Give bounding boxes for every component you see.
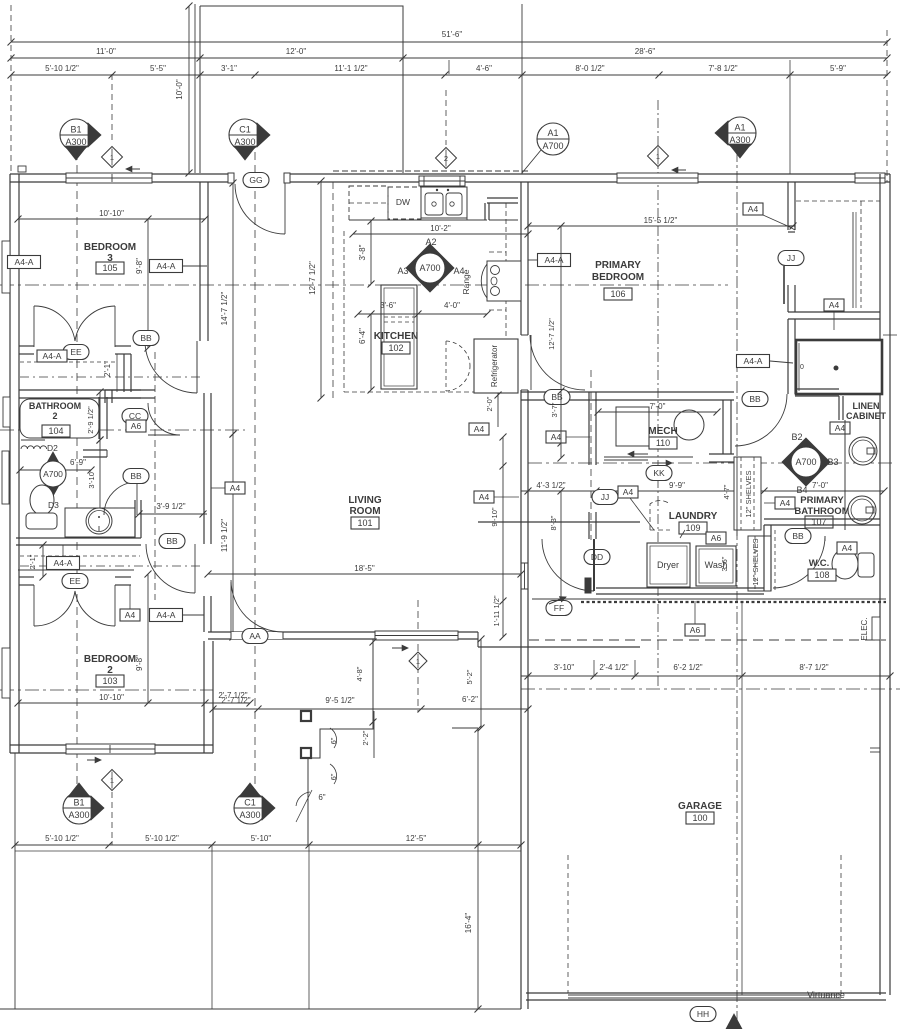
oval EE bedroom3 closet [63, 345, 89, 360]
dashed line x418 below living room [417, 600, 419, 712]
svg-text:3'-1": 3'-1" [221, 64, 237, 73]
hall wall piece above DD [588, 512, 590, 539]
svg-text:2'-7 1/2": 2'-7 1/2" [221, 696, 250, 705]
svg-text:A4-A: A4-A [157, 261, 176, 271]
dim row y491: 4'-3 1/2 / 9'-9 / 7'-0 [521, 490, 884, 492]
svg-text:A4-A: A4-A [15, 257, 34, 267]
svg-text:LIVING: LIVING [348, 495, 382, 506]
svg-text:0: 0 [800, 364, 804, 371]
window bedroom 3 top [66, 173, 152, 183]
elevation marker B2/A700/B3/B4 [782, 438, 830, 486]
counter right of sink / wall jog [487, 197, 518, 199]
tag A4 near wall x521 [474, 491, 494, 503]
diamond 1 top-left [102, 147, 123, 168]
svg-text:1'-11 1/2": 1'-11 1/2" [492, 595, 501, 626]
dryer [647, 543, 690, 587]
elevation marker A700 bath2 [43, 452, 63, 470]
bedroom3 right wall [199, 182, 201, 341]
section line C vertical dashed [254, 152, 256, 790]
svg-text:12" SHELVES: 12" SHELVES [751, 538, 760, 585]
svg-text:BB: BB [792, 531, 804, 541]
tag A4-A bedroom2 [150, 609, 183, 622]
svg-text:106: 106 [610, 289, 625, 299]
oval EE bedroom2 [62, 574, 88, 589]
furnace rect [616, 407, 649, 446]
svg-text:B3: B3 [827, 457, 838, 467]
svg-text:2'-4 1/2": 2'-4 1/2" [599, 663, 628, 672]
svg-text:DD: DD [591, 552, 603, 562]
svg-text:PRIMARY: PRIMARY [800, 495, 844, 506]
svg-text:A700: A700 [419, 263, 440, 273]
section marker B1/A300 top [60, 119, 92, 151]
hall right wall / bedroom2 right wall [203, 458, 205, 544]
svg-text:110: 110 [656, 438, 670, 448]
tag A4 closet2 [824, 299, 844, 311]
svg-text:7'-0": 7'-0" [650, 402, 666, 411]
bath2 door arc [104, 482, 137, 515]
diamond 1 below living room [409, 652, 427, 670]
svg-text:2: 2 [52, 411, 57, 421]
garage top wall line [532, 598, 886, 600]
dim 7'-0 mech [598, 411, 717, 413]
svg-text:ROOM: ROOM [349, 506, 380, 517]
svg-text:A4: A4 [474, 424, 485, 434]
svg-text:B4: B4 [796, 485, 807, 495]
svg-text:B2: B2 [791, 432, 802, 442]
primary bath top wall / linen [795, 388, 839, 390]
section line A-A vertical dash-dot through garage [736, 150, 738, 1025]
svg-text:A700: A700 [542, 141, 563, 151]
12in shelves lower [748, 536, 771, 591]
vanity right wall [134, 500, 136, 538]
leader 109 [680, 530, 685, 538]
svg-text:2'-1": 2'-1" [28, 554, 37, 569]
right exterior wall [879, 174, 881, 995]
svg-text:BB: BB [130, 471, 142, 481]
oval BB right2 [742, 392, 768, 407]
tag A4 top closet [743, 203, 763, 215]
svg-text:BATHROOM: BATHROOM [794, 506, 849, 517]
svg-text:B1: B1 [70, 125, 81, 135]
tag A4 below fridge [469, 423, 489, 435]
svg-text:12'-7 1/2": 12'-7 1/2" [308, 261, 317, 295]
bathroom2 top wall [19, 389, 141, 391]
svg-text:D3: D3 [48, 500, 59, 510]
svg-text:C1: C1 [239, 125, 251, 135]
svg-text:12'-7 1/2": 12'-7 1/2" [547, 318, 556, 350]
dim 12'-7 1/2 right rotated [560, 226, 562, 443]
tag A4 left of mech [546, 431, 566, 443]
horizontal dash-dot y285 [0, 284, 728, 286]
svg-text:GARAGE: GARAGE [678, 801, 722, 812]
svg-text:A3: A3 [397, 266, 408, 276]
oval GG [243, 173, 269, 188]
svg-text:A4-A: A4-A [54, 558, 73, 568]
CC closet walls [104, 390, 106, 403]
svg-text:7'-8 1/2": 7'-8 1/2" [708, 64, 737, 73]
svg-text:7'-0": 7'-0" [812, 481, 828, 490]
svg-text:6": 6" [318, 793, 325, 802]
svg-text:MECH: MECH [648, 426, 677, 437]
arrow below primary window [672, 169, 686, 171]
garage door jamb dashes [567, 855, 569, 993]
horizontal dash-dot y690 left [0, 689, 213, 691]
svg-text:3'-9 1/2": 3'-9 1/2" [156, 502, 185, 511]
kitchen island [381, 285, 417, 389]
svg-text:51'-6": 51'-6" [442, 30, 463, 39]
oval HH [690, 1007, 716, 1022]
svg-text:LINEN: LINEN [853, 401, 880, 411]
porch slab edges [14, 753, 16, 1009]
svg-text:109: 109 [685, 523, 700, 533]
dimension row 2: 11'-0 / 12'-0 / 28'-6 [11, 57, 887, 59]
svg-text:A6: A6 [711, 533, 722, 543]
oval BB near DD [0, 0, 1, 1]
svg-text:9'-9": 9'-9" [669, 481, 685, 490]
svg-text:108: 108 [814, 570, 829, 580]
svg-text:12'-0": 12'-0" [286, 47, 307, 56]
garage extension lines [593, 660, 595, 676]
window kitchen top [419, 176, 465, 186]
dim 11'-9 1/2 rotated [232, 434, 234, 637]
laundry dashed cabinet [650, 501, 670, 530]
svg-text:11'-0": 11'-0" [96, 47, 116, 56]
svg-text:BATHROOM: BATHROOM [29, 401, 81, 411]
oval BB wc [785, 529, 811, 544]
water heater circle [674, 410, 704, 440]
bedroom2 door arc [194, 544, 196, 593]
svg-text:10'-2": 10'-2" [430, 224, 451, 233]
svg-text:A4-A: A4-A [43, 351, 62, 361]
svg-text:A4: A4 [835, 423, 846, 433]
svg-text:A4: A4 [748, 204, 759, 214]
callout A1/A700 with leader [537, 123, 569, 155]
svg-text:DW: DW [396, 197, 410, 207]
oval BB mid [123, 469, 149, 484]
wc top wall [764, 518, 880, 520]
HH arrow [726, 1014, 742, 1029]
svg-text:4'-6": 4'-6" [476, 64, 492, 73]
svg-text:JJ: JJ [787, 253, 796, 263]
bedroom3 dimensions 10'-10 and 9'-8 [18, 218, 205, 220]
refrigerator [474, 339, 518, 393]
garage top wall dotted [581, 601, 886, 603]
oval BB lower [159, 534, 185, 549]
dimension row 3 [11, 74, 887, 76]
svg-text:3'-6": 3'-6" [720, 556, 729, 571]
svg-text:6'-2": 6'-2" [462, 695, 478, 704]
svg-text:CABINET: CABINET [846, 411, 887, 421]
svg-text:102: 102 [388, 343, 403, 353]
left exterior wall [9, 174, 11, 753]
closet-bath dashed shelf lines [20, 361, 117, 363]
svg-text:KITCHEN: KITCHEN [374, 331, 418, 342]
svg-text:3'-7": 3'-7" [550, 402, 559, 417]
primary closet dashed shelves [796, 200, 880, 202]
toilet wc [832, 549, 858, 579]
horizontal dash-dot y689 garage [521, 688, 900, 690]
top exterior wall [10, 173, 890, 175]
tag A4-A mid right [737, 355, 770, 368]
svg-text:A700: A700 [795, 457, 816, 467]
oval BB right wing top [544, 390, 570, 405]
svg-text:11'-9 1/2": 11'-9 1/2" [220, 519, 229, 552]
closet front wall stubs [19, 345, 34, 347]
right wall step [870, 747, 880, 749]
svg-text:5'-10 1/2": 5'-10 1/2" [145, 834, 179, 843]
diamond 1 bottom [102, 770, 123, 791]
main dividing wall x521-528 [520, 182, 522, 335]
oval FF [546, 601, 572, 616]
svg-text:A4: A4 [551, 432, 562, 442]
svg-text:Dryer: Dryer [657, 560, 679, 570]
window top right [855, 173, 885, 183]
svg-text:HH: HH [697, 1009, 709, 1019]
bedroom wing bottom wall [10, 744, 213, 746]
diamond 2 top-center [436, 148, 457, 169]
tub wall right [98, 397, 100, 439]
tag A4-A closet bed3 [37, 350, 67, 362]
dashed line x333 kitchen [332, 182, 334, 398]
mech top wall [521, 391, 734, 393]
svg-text:5'-10 1/2": 5'-10 1/2" [45, 834, 79, 843]
svg-text:3'-6": 3'-6" [380, 301, 396, 310]
svg-text:3'-10": 3'-10" [554, 663, 575, 672]
tag A4-A left wall [8, 256, 41, 269]
door GG into living room [284, 183, 286, 234]
tag A4-A hall [47, 557, 80, 570]
svg-text:BB: BB [749, 394, 761, 404]
tag A4 bedroom2 [120, 609, 140, 621]
kitchen upper cabinets dashed [349, 186, 388, 220]
extension line x112 [111, 74, 113, 143]
section marker C1/A300 top [229, 119, 261, 151]
svg-text:EE: EE [69, 576, 81, 586]
svg-text:2'-2": 2'-2" [361, 730, 370, 745]
bedroom3 door [145, 341, 197, 393]
svg-text:A4: A4 [623, 487, 634, 497]
svg-text:10'-10": 10'-10" [99, 209, 124, 218]
door DD [584, 550, 610, 565]
svg-text:6'-2 1/2": 6'-2 1/2" [673, 663, 702, 672]
svg-text:10'-10": 10'-10" [99, 693, 124, 702]
svg-text:2: 2 [107, 665, 113, 676]
dim 3'-8 rotated [370, 221, 372, 284]
tag A4-A bedroom3 [150, 260, 183, 273]
shower [796, 340, 882, 394]
extension line x449 [448, 60, 450, 74]
tag A4-A primary left [538, 254, 571, 267]
svg-text:4'-0": 4'-0" [444, 301, 460, 310]
svg-text:100: 100 [692, 813, 707, 823]
dim 16'-4 rotated [452, 727, 478, 729]
svg-text:5'-5": 5'-5" [150, 64, 166, 73]
svg-text:ELEC.: ELEC. [860, 617, 869, 640]
CC door arc [148, 403, 180, 435]
svg-text:GG: GG [249, 175, 262, 185]
svg-text:101: 101 [357, 518, 372, 528]
porch outline top [200, 6, 403, 173]
section marker A1/A300 top-right [724, 117, 756, 149]
garage door lines [568, 994, 841, 996]
dashed line x155 left hall [154, 352, 156, 600]
garage bottom wall [526, 992, 886, 994]
oval KK [646, 466, 672, 481]
svg-text:A300: A300 [234, 137, 255, 147]
extension line left [10, 5, 12, 173]
svg-text:A4: A4 [230, 483, 241, 493]
svg-text:A300: A300 [68, 810, 89, 820]
tag A4 shelves [775, 497, 795, 509]
svg-text:BEDROOM: BEDROOM [84, 654, 136, 665]
bath vanity sinks [844, 420, 846, 530]
dim 10'-2 [353, 233, 528, 235]
svg-text:AA: AA [249, 631, 261, 641]
wall stub below CC [83, 449, 107, 451]
svg-text:FF: FF [554, 603, 564, 613]
svg-text:12" SHELVES: 12" SHELVES [744, 470, 753, 517]
elevation marker A700 kitchen [406, 244, 454, 292]
svg-text:BB: BB [140, 333, 152, 343]
svg-text:3'-8": 3'-8" [358, 244, 367, 260]
primary bath door arc [735, 394, 787, 446]
svg-text:15'-5 1/2": 15'-5 1/2" [644, 216, 678, 225]
svg-text:A300: A300 [729, 135, 750, 145]
kitchen dashed boundary [343, 231, 345, 392]
closet bottom end cap [788, 225, 795, 227]
svg-text:4'-7": 4'-7" [722, 484, 731, 499]
oval JJ hall [592, 490, 618, 505]
horizontal dash-dot y463 right wing [528, 462, 893, 464]
svg-text:5'-2": 5'-2" [465, 669, 474, 684]
closet bottom wall [788, 311, 880, 313]
svg-text:6'-4": 6'-4" [358, 328, 367, 344]
svg-text:A700: A700 [43, 469, 63, 479]
left wall window projections [2, 241, 10, 293]
range appliance [487, 261, 521, 301]
svg-text:W.C.: W.C. [809, 558, 830, 569]
dim 9'-10 and 1'-11 1/2 rotated [502, 437, 504, 637]
hall dashed lines [20, 555, 140, 557]
oval AA [242, 629, 268, 644]
living room door bottom [231, 632, 283, 639]
mech room walls [588, 392, 590, 465]
svg-text:A4: A4 [125, 610, 136, 620]
svg-text:5'-10 1/2": 5'-10 1/2" [45, 64, 79, 73]
svg-text:8'-0 1/2": 8'-0 1/2" [575, 64, 604, 73]
refrigerator door dashed arcs [446, 341, 470, 366]
section marker B1/A300 bottom [63, 792, 95, 824]
svg-text:10'-0": 10'-0" [175, 79, 184, 100]
mech bifold marks [604, 456, 693, 458]
arrow below bedroom2 window [87, 759, 101, 761]
closet wall stub x788-795 upper [787, 182, 789, 230]
wall jog x478-522 [477, 632, 479, 647]
svg-text:A6: A6 [690, 625, 701, 635]
dim 3'-6 / 4'-0 [358, 313, 487, 315]
svg-text:A4: A4 [829, 300, 840, 310]
dashed roofline y171 [333, 170, 528, 172]
bedroom2 closet doors [33, 585, 35, 626]
dimension row 51'-6" [11, 41, 887, 43]
dashed counter right x506 [505, 203, 507, 339]
svg-text:A1: A1 [547, 128, 558, 138]
svg-text:16'-4": 16'-4" [464, 913, 473, 934]
bedroom2 dims [18, 702, 205, 704]
svg-text:D2: D2 [47, 443, 58, 453]
dishwasher DW [388, 187, 421, 219]
svg-text:9'-10": 9'-10" [490, 507, 499, 526]
svg-text:A6: A6 [131, 421, 142, 431]
svg-text:LAUNDRY: LAUNDRY [669, 511, 718, 522]
svg-text:2'-9 1/2": 2'-9 1/2" [86, 406, 95, 434]
svg-text:BEDROOM: BEDROOM [84, 242, 136, 253]
arrow below bedroom3 window [126, 168, 140, 170]
svg-text:A4: A4 [479, 492, 490, 502]
garage dim row y676 [521, 675, 890, 677]
svg-text:A300: A300 [239, 810, 260, 820]
svg-text:PRIMARY: PRIMARY [595, 260, 641, 271]
arrow below living window [392, 647, 408, 649]
svg-text:A1: A1 [734, 123, 745, 133]
svg-text:8'-7 1/2": 8'-7 1/2" [799, 663, 828, 672]
svg-text:4'-8": 4'-8" [355, 666, 364, 681]
svg-text:105: 105 [102, 263, 117, 273]
svg-text:JJ: JJ [601, 492, 610, 502]
svg-text:C1: C1 [244, 798, 256, 808]
svg-text:EE: EE [70, 347, 82, 357]
svg-text:A4-A: A4-A [157, 610, 176, 620]
wall left of shower [787, 319, 789, 394]
svg-text:2'-1": 2'-1" [103, 361, 112, 377]
tag A4 wc [837, 542, 857, 554]
svg-text:18'-5": 18'-5" [354, 564, 375, 573]
dim 15'-5 1/2 primary bedroom [528, 225, 793, 227]
svg-text:BEDROOM: BEDROOM [592, 272, 644, 283]
svg-text:14'-7 1/2": 14'-7 1/2" [220, 291, 229, 325]
svg-text:5'-9": 5'-9" [830, 64, 846, 73]
kitchen sink [421, 187, 467, 218]
counter front edge [349, 219, 487, 221]
svg-text:2'-0": 2'-0" [485, 396, 494, 411]
tag A4 + diagonal leader [618, 486, 638, 498]
dim 14'-7 1/2 rotated [232, 183, 234, 434]
svg-text:A4: A4 [842, 543, 853, 553]
living bottom wall [208, 631, 478, 633]
dashed line x591 hall [590, 370, 592, 540]
svg-text:9'-8": 9'-8" [135, 655, 144, 671]
DD door jamb blocks [585, 578, 591, 593]
dim 6'-4 rotated [370, 314, 372, 390]
svg-text:8'-3": 8'-3" [549, 515, 558, 530]
svg-text:9'-5 1/2": 9'-5 1/2" [325, 696, 354, 705]
svg-text:BB: BB [166, 536, 178, 546]
window primary bedroom top [617, 173, 698, 183]
tag A6 laundry [706, 532, 726, 544]
12in shelves upper [734, 457, 761, 530]
svg-text:Range: Range [461, 269, 471, 294]
bathroom2 tub [20, 399, 99, 438]
line x522 above wall [521, 4, 523, 174]
extension x790 - wall line to A1/A300 [789, 60, 791, 174]
svg-text:A4-A: A4-A [744, 356, 763, 366]
wc door arc [773, 536, 825, 588]
svg-text:6'-9": 6'-9" [70, 458, 86, 467]
door opening GG jambs [233, 173, 285, 183]
bathroom bottom wall [16, 537, 141, 539]
extension line right x887 [886, 30, 888, 182]
garage top dashed overhang [529, 639, 886, 641]
